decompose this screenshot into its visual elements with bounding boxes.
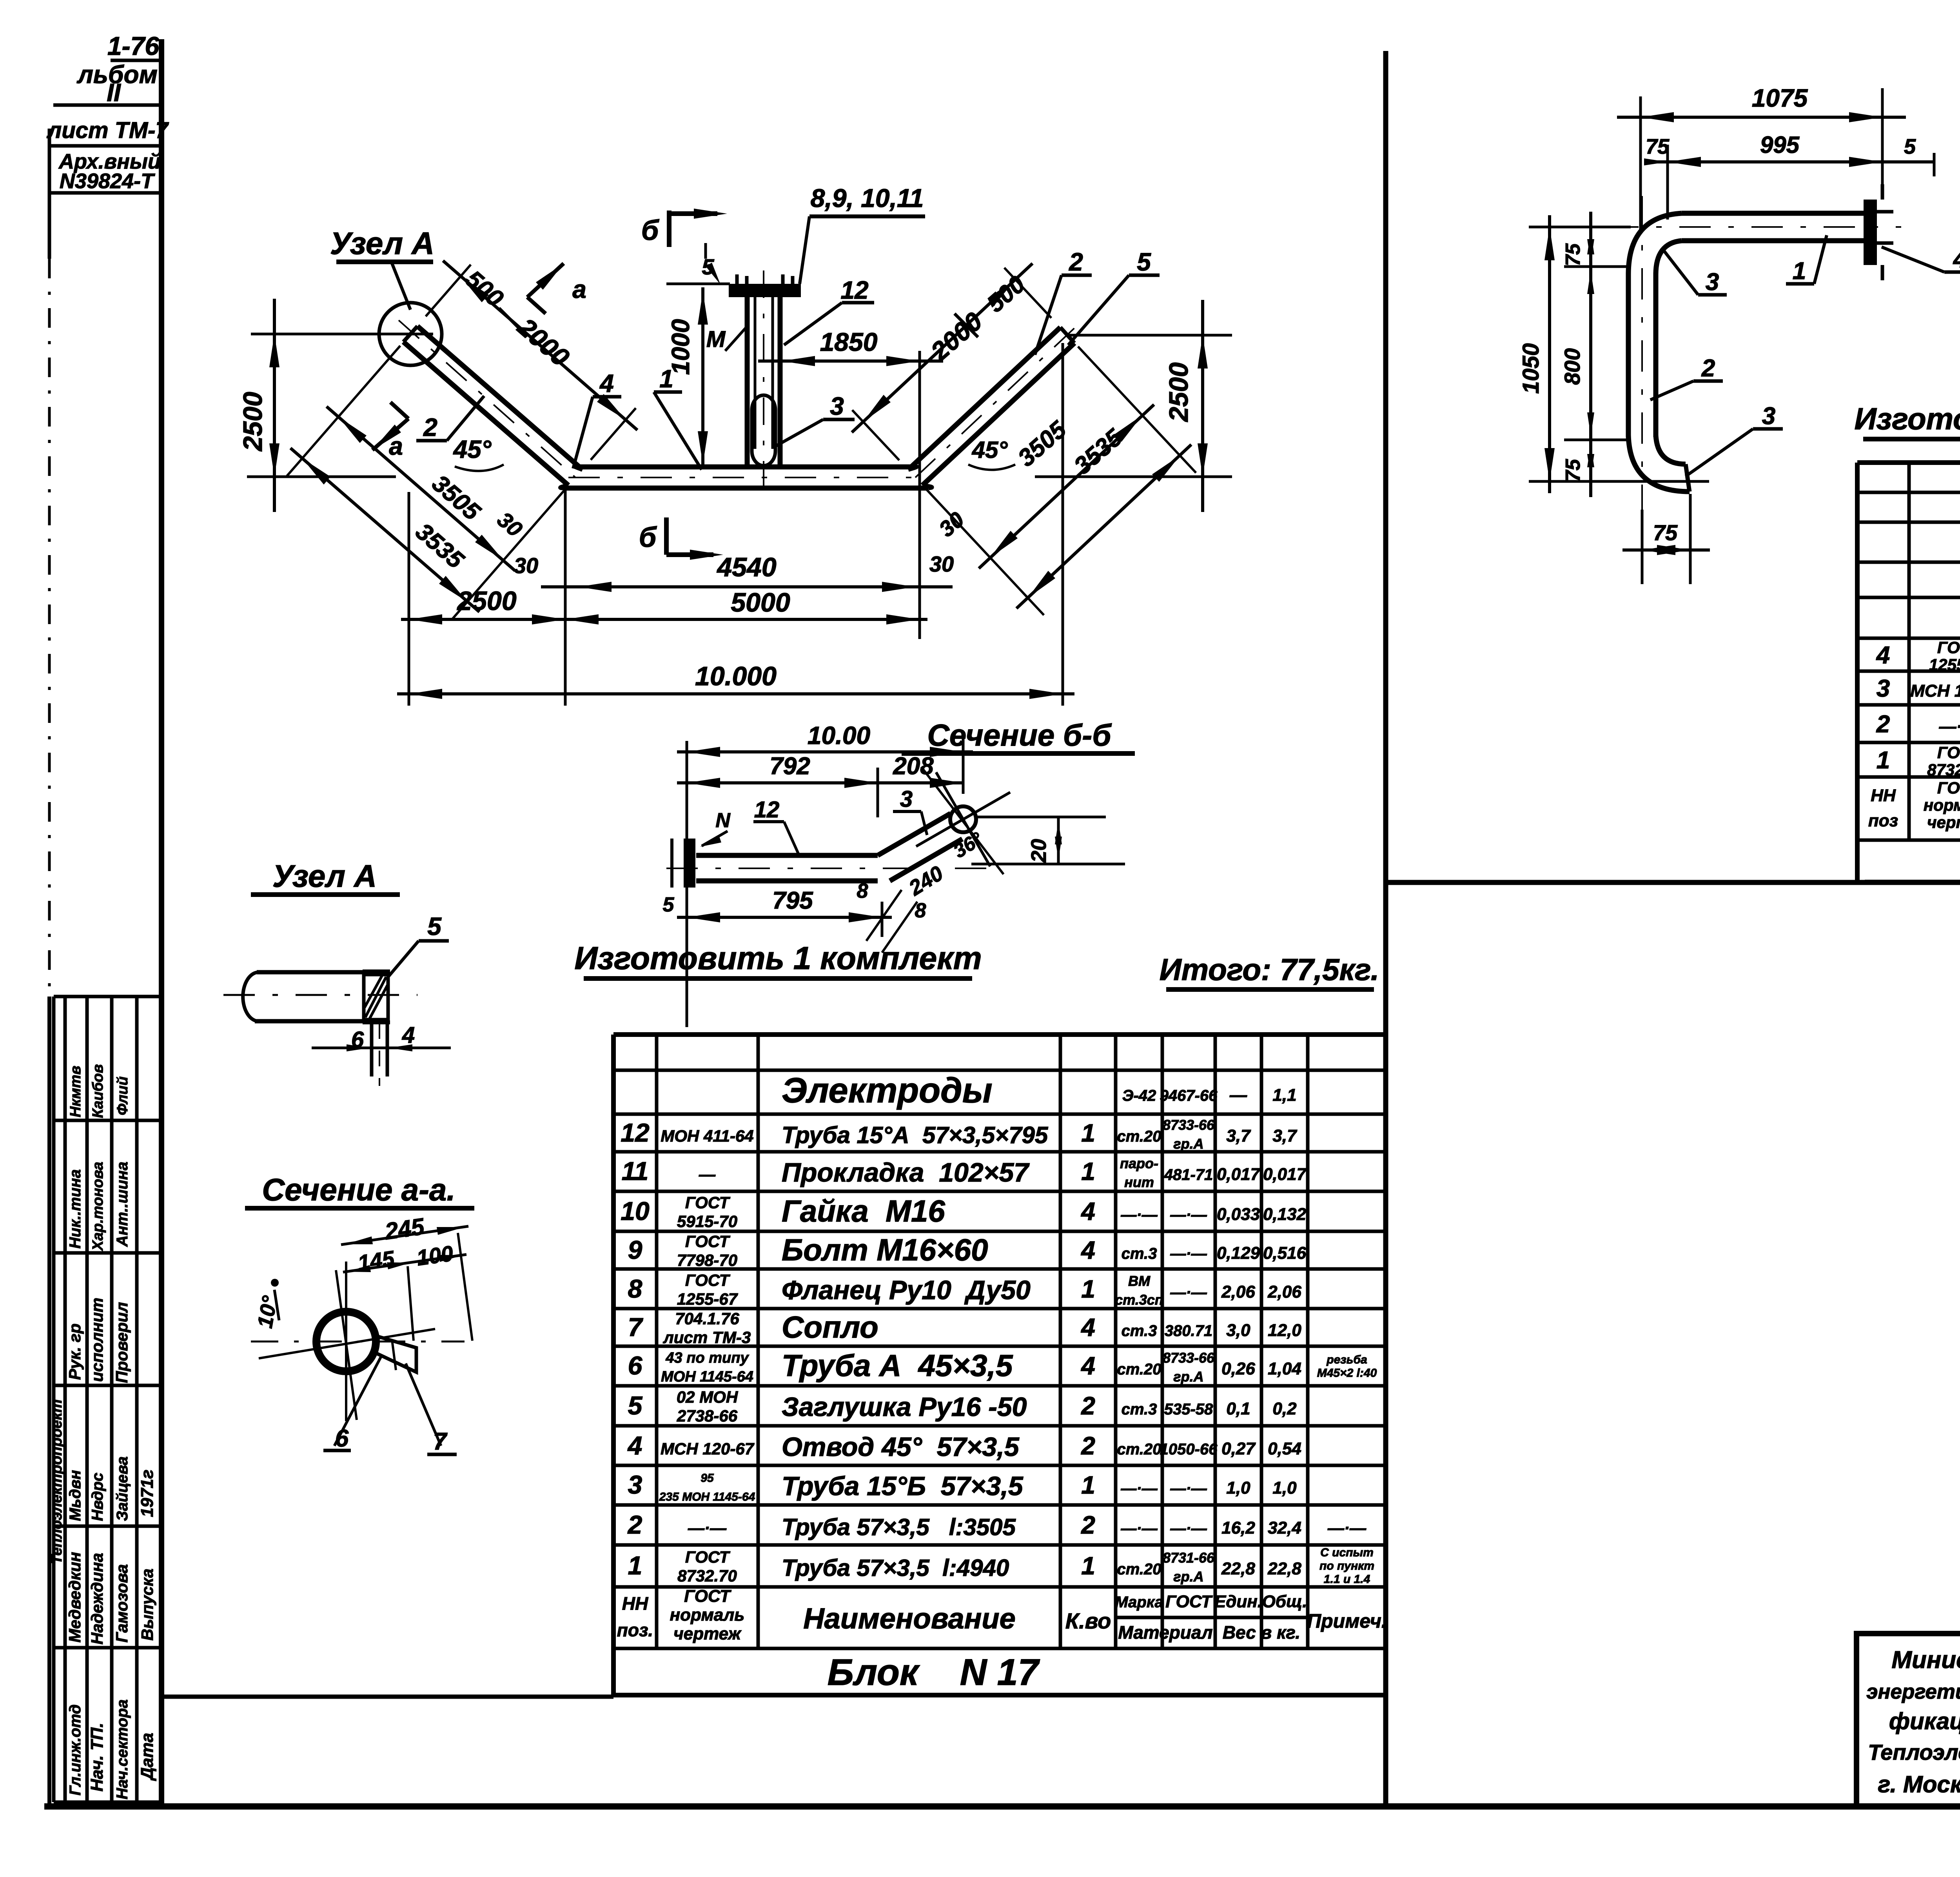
dim 10000 [397, 343, 1074, 706]
svg-text:энергетики и электри-: энергетики и электри- [1866, 1680, 1960, 1703]
line from stamp to table17 [162, 1695, 613, 1699]
svg-text:Флий: Флий [114, 1076, 131, 1115]
svg-text:2,06: 2,06 [1221, 1282, 1255, 1302]
svg-text:2: 2 [1081, 1511, 1095, 1539]
label 5 weld [702, 243, 720, 285]
uzel A detail labels 6 4 [312, 1022, 451, 1053]
svg-text:4: 4 [1080, 1352, 1095, 1380]
label 12 [784, 276, 874, 345]
stamp table grid [54, 997, 162, 1802]
svg-text:02 МОН: 02 МОН [677, 1388, 739, 1406]
svg-text:5: 5 [663, 893, 675, 916]
svg-text:10.000: 10.000 [695, 661, 777, 691]
svg-text:—·—: —·— [1939, 717, 1960, 736]
svg-text:Гл.инж.отд: Гл.инж.отд [67, 1705, 84, 1795]
dim 3505+3535 left diagonal [287, 346, 565, 619]
uzel A detail plug hatched [363, 971, 390, 1022]
svg-text:чертеж: чертеж [1927, 813, 1960, 831]
svg-text:гр.А: гр.А [1173, 1369, 1203, 1385]
dim 500+2000 right diagonal [852, 263, 1051, 460]
svg-text:2,06: 2,06 [1267, 1282, 1301, 1302]
section mark a upper [527, 263, 586, 314]
label 3 center [774, 392, 855, 447]
svg-text:Марка: Марка [1115, 1594, 1163, 1611]
dim 2500 right vertical [1035, 300, 1232, 512]
table block 18 row texts [1876, 558, 1960, 779]
svg-text:Сечение а-а.: Сечение а-а. [262, 1172, 455, 1207]
svg-text:535-58: 535-58 [1164, 1401, 1213, 1418]
svg-text:8: 8 [628, 1274, 642, 1303]
svg-text:Узел А: Узел А [272, 859, 377, 893]
svg-text:Отвод 45° 57×3,5: Отвод 45° 57×3,5 [782, 1432, 1020, 1462]
svg-text:Выпуска: Выпуска [138, 1568, 156, 1641]
uzel A detail nozzle pipe down [372, 1021, 387, 1086]
svg-text:7: 7 [433, 1428, 448, 1455]
svg-text:лист ТМ-7: лист ТМ-7 [46, 118, 169, 143]
svg-text:ГОСТ: ГОСТ [685, 1548, 731, 1566]
svg-text:Каибов: Каибов [90, 1064, 106, 1118]
svg-text:резьба: резьба [1326, 1353, 1367, 1366]
svg-text:гр.А: гр.А [1173, 1568, 1203, 1585]
svg-text:Общ.: Общ. [1262, 1592, 1307, 1611]
svg-text:16,2: 16,2 [1221, 1518, 1255, 1538]
section a-a angle 10 [253, 1279, 435, 1358]
svg-text:0,2: 0,2 [1272, 1399, 1297, 1418]
svg-text:4: 4 [1876, 642, 1890, 669]
svg-text:7: 7 [628, 1312, 644, 1341]
svg-text:1,0: 1,0 [1226, 1478, 1250, 1498]
block18 pipe vertical item 2 [1628, 196, 1656, 510]
svg-text:Един.: Един. [1214, 1592, 1262, 1611]
dim 3505+3535 right diagonal [926, 347, 1196, 615]
svg-text:1: 1 [1081, 1157, 1095, 1185]
svg-text:481-71: 481-71 [1164, 1166, 1213, 1184]
svg-text:ГОСТ: ГОСТ [684, 1587, 731, 1606]
uzel A detail title [251, 859, 400, 895]
svg-text:10: 10 [621, 1196, 650, 1225]
flange plate items 8,9,10,11 [666, 274, 801, 297]
svg-text:20: 20 [1027, 839, 1051, 863]
svg-text:5: 5 [1904, 135, 1916, 158]
label 4 [573, 369, 621, 468]
svg-text:N39824-Т: N39824-Т [60, 169, 155, 193]
label 1 [654, 365, 702, 470]
svg-text:3: 3 [1762, 403, 1775, 430]
svg-text:0,033: 0,033 [1217, 1205, 1260, 1224]
svg-text:2: 2 [1701, 355, 1715, 382]
svg-text:1.1 и 1.4: 1.1 и 1.4 [1324, 1573, 1370, 1586]
svg-text:—·—: —·— [1170, 1245, 1207, 1262]
svg-text:2: 2 [1081, 1432, 1095, 1460]
pipe item 12 vertical [747, 270, 780, 494]
svg-text:ст.20: ст.20 [1117, 1361, 1161, 1378]
svg-text:1000: 1000 [666, 319, 695, 375]
svg-text:1: 1 [1081, 1275, 1095, 1303]
block18 elbow bottom item 3 [1628, 435, 1690, 492]
svg-text:Сопло: Сопло [782, 1310, 878, 1344]
leader 8,9,10,11 [800, 183, 925, 284]
svg-text:Материал: Материал [1118, 1622, 1212, 1643]
node A title (uzel A) [330, 226, 434, 310]
section b-b flange circle [916, 767, 1010, 874]
svg-text:С испыт: С испыт [1320, 1546, 1374, 1559]
stamp table rotated texts [49, 1064, 157, 1799]
left top box archive no [51, 150, 162, 193]
svg-text:4540: 4540 [716, 552, 776, 582]
svg-text:ст.20: ст.20 [1117, 1128, 1161, 1145]
svg-text:5: 5 [1137, 248, 1151, 276]
svg-text:Труба А 45×3,5: Труба А 45×3,5 [782, 1348, 1013, 1383]
svg-text:1: 1 [1877, 747, 1890, 774]
pipe item 2 right diagonal [908, 327, 1075, 485]
node A circle [379, 303, 442, 365]
svg-text:7798-70: 7798-70 [677, 1251, 737, 1269]
svg-text:ст.3сп: ст.3сп [1115, 1292, 1163, 1308]
svg-text:Нач. ТП.: Нач. ТП. [87, 1723, 107, 1792]
svg-text:2500: 2500 [238, 392, 268, 452]
svg-text:0,27: 0,27 [1221, 1439, 1256, 1458]
section b-b pipe [666, 855, 988, 881]
svg-text:1: 1 [628, 1551, 642, 1580]
svg-text:Труба 15°А 57×3,5×795: Труба 15°А 57×3,5×795 [782, 1122, 1049, 1148]
svg-text:—·—: —·— [1120, 1480, 1158, 1497]
section a-a dim 245 [336, 1213, 472, 1420]
svg-text:чертеж: чертеж [673, 1624, 742, 1643]
left top box project no [107, 31, 162, 60]
svg-text:Прокладка 102×57: Прокладка 102×57 [782, 1158, 1030, 1187]
block18 flange item 4 [1864, 184, 1893, 280]
svg-text:8,9, 10,11: 8,9, 10,11 [811, 183, 924, 212]
svg-text:ВМ: ВМ [1128, 1273, 1151, 1289]
angle labels 45 [453, 435, 504, 471]
svg-text:НН: НН [1871, 786, 1896, 805]
svg-text:1075: 1075 [1752, 84, 1808, 112]
svg-text:паро-: паро- [1120, 1155, 1158, 1171]
svg-text:ГОСТ: ГОСТ [1165, 1592, 1213, 1611]
svg-text:1,04: 1,04 [1268, 1359, 1301, 1378]
svg-text:Зайцева: Зайцева [114, 1456, 131, 1521]
section a-a pipe ring [316, 1312, 376, 1371]
svg-text:0,1: 0,1 [1226, 1399, 1250, 1418]
svg-text:поз: поз [1868, 811, 1898, 830]
svg-text:гр.А: гр.А [1173, 1136, 1203, 1152]
svg-text:75: 75 [1653, 520, 1678, 545]
svg-text:4: 4 [627, 1431, 642, 1460]
svg-text:Сечение б-б: Сечение б-б [927, 718, 1112, 752]
svg-text:6: 6 [628, 1351, 643, 1380]
svg-text:Ант..шина: Ант..шина [114, 1162, 131, 1247]
svg-text:2: 2 [1069, 248, 1083, 276]
dim 1850 [758, 327, 943, 639]
svg-text:по пункт: по пункт [1319, 1559, 1374, 1572]
svg-text:4: 4 [1080, 1313, 1095, 1341]
section b-b dim 20 right [971, 817, 1125, 864]
svg-text:МСН 120-67: МСН 120-67 [661, 1440, 755, 1458]
svg-text:Заглушка Ру16 -50: Заглушка Ру16 -50 [782, 1392, 1027, 1422]
svg-text:0,132: 0,132 [1263, 1205, 1307, 1224]
table block 17 header [617, 1587, 1387, 1643]
pipe item 1 horizontal [564, 467, 928, 488]
section a-a title [245, 1172, 474, 1208]
svg-text:0,516: 0,516 [1263, 1243, 1307, 1263]
svg-text:МСН 120-67: МСН 120-67 [1910, 681, 1960, 701]
svg-text:б: б [641, 215, 660, 246]
svg-text:ГОСТ: ГОСТ [685, 1193, 731, 1212]
svg-text:5000: 5000 [731, 588, 790, 617]
svg-text:Наименование: Наименование [803, 1602, 1016, 1635]
block18 left dims 1050 75 800 75 [1518, 212, 1709, 497]
svg-text:5: 5 [628, 1391, 643, 1420]
svg-text:ГОСТ: ГОСТ [685, 1271, 731, 1289]
svg-text:Узел А: Узел А [330, 226, 434, 261]
dim 2500 left vertical [238, 299, 433, 512]
svg-text:45°: 45° [453, 435, 492, 463]
svg-text:ст.3: ст.3 [1122, 1401, 1157, 1418]
svg-text:4: 4 [1080, 1236, 1095, 1264]
svg-text:30: 30 [514, 553, 538, 578]
svg-text:1: 1 [1081, 1552, 1095, 1580]
svg-text:235 МОН 1145-64: 235 МОН 1145-64 [659, 1490, 755, 1503]
svg-text:нормаль: нормаль [1924, 796, 1960, 814]
svg-text:32,4: 32,4 [1268, 1518, 1301, 1538]
svg-text:0,54: 0,54 [1268, 1439, 1301, 1458]
svg-text:—: — [1229, 1086, 1247, 1105]
svg-text:2: 2 [627, 1510, 642, 1539]
svg-text:3,7: 3,7 [1272, 1126, 1298, 1145]
svg-text:Мьдвн: Мьдвн [67, 1470, 84, 1521]
svg-text:Теплоэлектропроект: Теплоэлектропроект [49, 1400, 65, 1565]
svg-text:1255-67: 1255-67 [677, 1290, 738, 1308]
svg-text:22,8: 22,8 [1267, 1559, 1301, 1578]
svg-text:3: 3 [1706, 269, 1719, 296]
svg-text:22,8: 22,8 [1221, 1559, 1255, 1578]
svg-text:0,017: 0,017 [1217, 1165, 1261, 1184]
table block 18 grid [1857, 463, 1960, 882]
block18 dim 75+995+5 [1644, 132, 1934, 220]
svg-text:0,017: 0,017 [1263, 1165, 1307, 1184]
dim 1000 vertical [666, 287, 708, 467]
svg-text:фикации СССР.: фикации СССР. [1889, 1708, 1960, 1734]
svg-text:4: 4 [402, 1022, 415, 1048]
svg-text:Труба 57×3,5 l:3505: Труба 57×3,5 l:3505 [782, 1514, 1016, 1540]
svg-text:1: 1 [1793, 258, 1806, 285]
svg-text:Надеждина: Надеждина [88, 1553, 106, 1645]
svg-text:3,7: 3,7 [1226, 1126, 1251, 1145]
svg-text:380.71: 380.71 [1165, 1322, 1212, 1340]
uzel A detail label 5 [388, 912, 449, 977]
block18 dim 1075 [1617, 84, 1906, 231]
svg-text:г. Москва 1971г: г. Москва 1971г [1878, 1771, 1960, 1797]
svg-text:3,0: 3,0 [1226, 1321, 1250, 1340]
svg-text:8: 8 [857, 880, 868, 902]
svg-text:1850: 1850 [820, 327, 878, 356]
svg-text:4: 4 [1080, 1197, 1095, 1225]
svg-text:Гамозова: Гамозова [113, 1564, 131, 1643]
svg-text:Хар.тонова: Хар.тонова [90, 1162, 106, 1252]
section a-a nozzle item 7 [376, 1336, 416, 1372]
svg-text:—·—: —·— [1170, 1520, 1207, 1537]
svg-text:исполнит: исполнит [88, 1298, 106, 1382]
table block 17 grid [613, 1035, 1386, 1695]
svg-text:1,1: 1,1 [1272, 1086, 1296, 1105]
svg-text:Труба 57×3,5 l:4940: Труба 57×3,5 l:4940 [782, 1555, 1009, 1581]
svg-text:8733-66: 8733-66 [1163, 1117, 1215, 1133]
labels 2 and 5 right [1035, 248, 1092, 355]
svg-text:ГОСТ: ГОСТ [1937, 779, 1960, 797]
svg-text:Гайка М16: Гайка М16 [782, 1194, 945, 1228]
svg-text:5915-70: 5915-70 [677, 1212, 737, 1231]
section b-b title [902, 718, 1135, 753]
svg-text:1255-67: 1255-67 [1929, 655, 1960, 674]
svg-text:Проверил: Проверил [113, 1302, 131, 1383]
svg-text:Фланец Ру10 Ду50: Фланец Ру10 Ду50 [782, 1275, 1031, 1305]
svg-text:ст.3: ст.3 [1122, 1322, 1157, 1340]
svg-text:Теплоэлектропроект: Теплоэлектропроект [1868, 1740, 1960, 1764]
svg-text:10.00: 10.00 [808, 721, 870, 750]
label M [706, 325, 748, 352]
svg-text:ГОСТ: ГОСТ [1937, 638, 1960, 657]
text izgotovit komplekt 17 [574, 940, 982, 978]
svg-text:Нкмтв: Нкмтв [67, 1066, 84, 1117]
svg-text:М45×2 l:40: М45×2 l:40 [1317, 1367, 1377, 1380]
svg-text:Вес в кг.: Вес в кг. [1223, 1622, 1300, 1643]
svg-text:1971г: 1971г [138, 1470, 157, 1517]
svg-text:ГОСТ: ГОСТ [685, 1232, 731, 1251]
svg-text:6: 6 [335, 1425, 349, 1452]
svg-text:Итого: 77,5кг.: Итого: 77,5кг. [1160, 952, 1379, 987]
svg-text:75: 75 [1646, 135, 1670, 158]
svg-text:Ник..тина: Ник..тина [67, 1169, 84, 1249]
section b-b bend pipe [878, 813, 962, 881]
sheet vertical divider [1383, 51, 1388, 1806]
svg-text:795: 795 [772, 887, 813, 914]
dim 2500 + 5000 bottom chain [401, 490, 927, 706]
pipe end caps [403, 326, 1074, 343]
svg-text:Блок N 17: Блок N 17 [828, 1652, 1040, 1693]
svg-text:1-76: 1-76 [107, 31, 160, 60]
svg-text:Медведкин: Медведкин [65, 1552, 84, 1643]
svg-text:8732.70: 8732.70 [677, 1567, 737, 1585]
svg-text:—·—: —·— [1170, 1480, 1207, 1497]
block18 dim 75 bottom [1622, 494, 1710, 584]
svg-text:лист ТМ-3: лист ТМ-3 [663, 1328, 751, 1347]
svg-text:45°: 45° [972, 437, 1008, 463]
svg-text:145: 145 [356, 1246, 396, 1276]
svg-text:ст.3: ст.3 [1122, 1245, 1157, 1262]
svg-text:II: II [107, 78, 121, 107]
svg-text:2500: 2500 [1164, 362, 1194, 422]
svg-text:4: 4 [599, 369, 614, 398]
svg-text:2: 2 [1081, 1392, 1095, 1420]
svg-text:1050-66: 1050-66 [1160, 1441, 1218, 1458]
svg-text:0,26: 0,26 [1221, 1359, 1255, 1378]
plug item 3 capsule [752, 395, 775, 466]
section b-b dim 795 [663, 880, 926, 953]
section a-a crosshairs [251, 1262, 465, 1421]
svg-text:12: 12 [621, 1118, 650, 1147]
dim 4540 with 30 ticks [493, 507, 969, 592]
svg-text:1050: 1050 [1518, 343, 1544, 394]
left column left border [48, 129, 51, 1806]
svg-text:М: М [706, 327, 726, 352]
svg-text:12: 12 [840, 276, 868, 304]
svg-text:Министерство: Министерство [1891, 1646, 1960, 1674]
svg-text:Дата: Дата [138, 1733, 157, 1781]
block18 pipe horizontal item 1 [1607, 213, 1901, 241]
svg-text:1: 1 [1081, 1471, 1095, 1499]
svg-text:792: 792 [769, 753, 810, 780]
right pipe bend [908, 467, 932, 488]
svg-text:б: б [639, 522, 657, 553]
svg-text:—·—: —·— [1120, 1520, 1158, 1537]
svg-text:8731-66: 8731-66 [1163, 1550, 1215, 1566]
svg-text:704.1.76: 704.1.76 [675, 1309, 739, 1328]
svg-text:3: 3 [628, 1470, 642, 1499]
pipe item 2 left diagonal [399, 320, 583, 485]
section a-a dims 145 100 [343, 1241, 466, 1341]
svg-text:11: 11 [622, 1156, 649, 1185]
section b-b flange left [672, 839, 695, 888]
svg-text:43 по типу: 43 по типу [665, 1350, 749, 1366]
svg-text:нит: нит [1124, 1174, 1154, 1190]
svg-text:Нвдрс: Нвдрс [89, 1473, 106, 1521]
svg-text:245: 245 [383, 1213, 426, 1245]
svg-text:75: 75 [1562, 243, 1584, 266]
svg-text:2: 2 [423, 413, 437, 441]
svg-text:5: 5 [427, 912, 442, 940]
section a-a leaders 6 7 [323, 1354, 457, 1455]
section mark b bottom [639, 517, 723, 560]
svg-text:Э-42: Э-42 [1122, 1087, 1156, 1104]
section b-b labels [753, 797, 800, 857]
svg-text:3: 3 [900, 786, 913, 812]
svg-text:Болт М16×60: Болт М16×60 [782, 1233, 988, 1267]
svg-text:2: 2 [1876, 711, 1890, 738]
svg-text:ст.20: ст.20 [1117, 1441, 1161, 1458]
svg-text:НН: НН [622, 1593, 648, 1614]
svg-text:N: N [715, 809, 731, 832]
svg-text:ст.20: ст.20 [1117, 1561, 1161, 1578]
svg-text:2500: 2500 [456, 586, 516, 616]
left top box album [53, 60, 162, 107]
svg-text:12: 12 [754, 797, 780, 822]
left column right border [159, 39, 164, 1806]
title block frame [1857, 1634, 1960, 1806]
svg-text:2738-66: 2738-66 [677, 1407, 738, 1425]
svg-text:поз.: поз. [617, 1620, 653, 1640]
svg-text:Изготовить 1 компл.: Изготовить 1 компл. [1854, 401, 1960, 436]
block18 labels [1664, 251, 1727, 296]
svg-text:—·—: —·— [1327, 1519, 1367, 1537]
section mark a lower [372, 402, 408, 460]
svg-text:а: а [389, 432, 403, 460]
svg-text:100: 100 [415, 1241, 455, 1270]
svg-text:800: 800 [1560, 348, 1584, 385]
svg-text:3: 3 [830, 392, 844, 420]
dim 500+2000 left diagonal [426, 261, 637, 460]
svg-text:75: 75 [1562, 459, 1584, 482]
svg-text:Рук. гр: Рук. гр [65, 1323, 84, 1380]
svg-text:—: — [699, 1165, 716, 1184]
svg-text:1,0: 1,0 [1272, 1478, 1297, 1498]
text itogo 77.5 [1160, 952, 1379, 989]
svg-text:Электроды: Электроды [782, 1071, 993, 1110]
svg-text:3: 3 [1877, 675, 1890, 702]
svg-text:30: 30 [929, 552, 954, 576]
svg-text:4: 4 [1953, 246, 1960, 273]
title block ministry text [1866, 1646, 1960, 1797]
svg-text:9467-66: 9467-66 [1160, 1087, 1218, 1104]
